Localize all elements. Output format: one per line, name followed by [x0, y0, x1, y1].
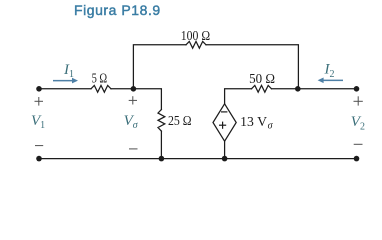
resistor R1 5 ohm zigzag [91, 85, 111, 92]
node source bottom junction dot [222, 156, 228, 162]
label port1 plus sign [35, 100, 44, 102]
node port1 plus terminal dot [36, 86, 42, 92]
arrow I1 direction (points right) [53, 78, 78, 84]
label port2 minus sign [354, 143, 363, 145]
label U1 internal minus sign [221, 111, 227, 113]
wire from R4 to node B and port2 top lead [272, 88, 357, 90]
node B junction dot [295, 86, 301, 92]
label port1 minus sign [35, 145, 43, 147]
label V sigma plus sign [129, 99, 137, 101]
label port2 plus sign [354, 100, 363, 102]
dependent source U1 diamond [213, 104, 236, 141]
wire from R1 to corner above R2 [111, 89, 161, 110]
wire R2 bottom lead [160, 131, 162, 159]
svg-text:100 Ω: 100 Ω [181, 28, 210, 43]
svg-text:5 Ω: 5 Ω [92, 70, 108, 85]
svg-text:σ: σ [268, 121, 274, 132]
wire port1 top lead [39, 88, 91, 90]
node port1 minus terminal dot [36, 156, 42, 162]
label V sigma minus sign [129, 148, 138, 150]
wire dependent source bottom stub [224, 141, 226, 158]
svg-text:V1: V1 [31, 113, 45, 131]
node port2 plus terminal dot [354, 86, 360, 92]
label U1 internal plus sign [219, 124, 226, 126]
wire bottom rail [39, 158, 357, 160]
svg-text:V2: V2 [351, 114, 365, 132]
resistor R4 50 ohm zigzag [252, 85, 272, 92]
wire top rail left segment with left leg down to node A [133, 45, 186, 89]
svg-text:13 V: 13 V [240, 114, 267, 129]
node A junction dot [131, 86, 137, 92]
resistor R3 100 ohm zigzag [186, 41, 206, 48]
node port2 minus terminal dot [354, 156, 360, 162]
svg-text:Vσ: Vσ [124, 113, 139, 131]
svg-text:Figura P18.9: Figura P18.9 [74, 2, 161, 18]
wire top rail right segment with right leg down to node B [206, 45, 298, 89]
resistor R2 25 ohm vertical zigzag [158, 110, 165, 132]
svg-text:25 Ω: 25 Ω [168, 113, 192, 128]
node R2 bottom junction dot [159, 156, 165, 162]
arrow I2 direction (points left) [318, 78, 343, 84]
svg-text:I1: I1 [63, 62, 74, 80]
wire dependent source top stub and corner to 50 ohm [225, 89, 252, 104]
svg-text:I2: I2 [324, 62, 335, 80]
svg-text:50 Ω: 50 Ω [249, 71, 275, 86]
